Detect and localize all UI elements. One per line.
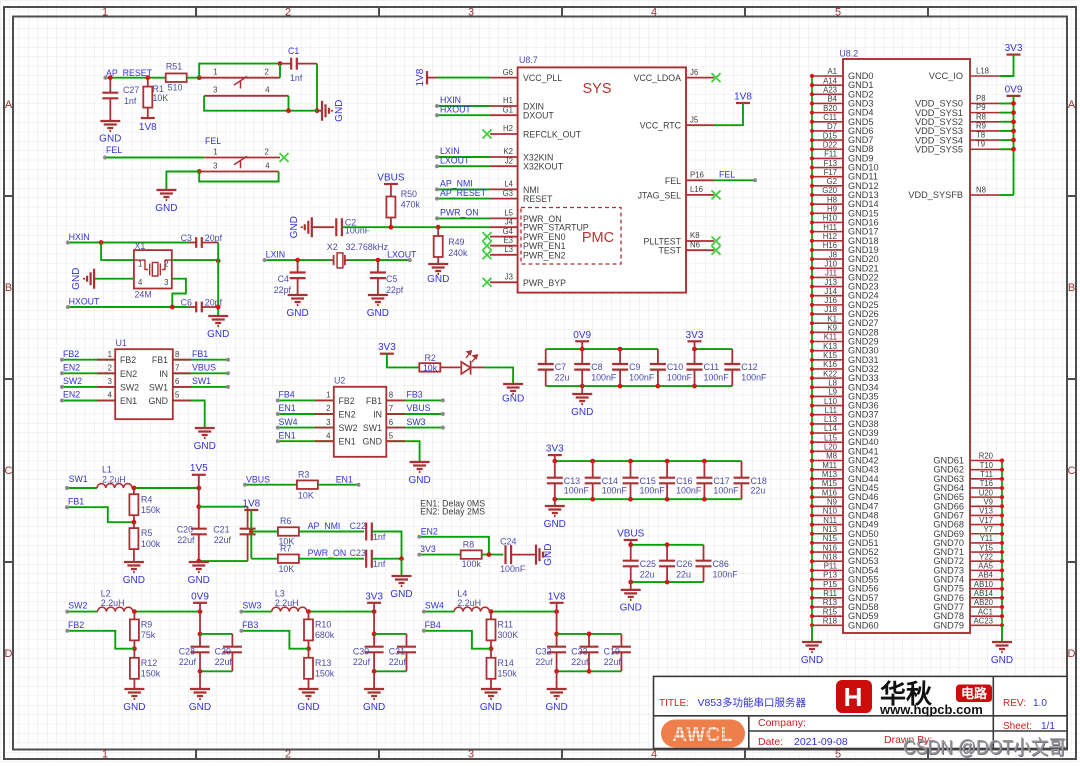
wire X1 pin3	[172, 279, 186, 307]
svg-text:R13: R13	[823, 598, 837, 607]
U8.2 pin L18 VCC_IO	[970, 75, 1000, 77]
svg-text:R8: R8	[463, 539, 474, 549]
svg-text:Y11: Y11	[980, 534, 993, 543]
capacitor C18	[741, 461, 743, 478]
U8.2 pin V9 GND66	[970, 505, 1002, 507]
svg-text:C16: C16	[676, 476, 692, 486]
switch S1 contacts 3-4	[204, 95, 288, 97]
svg-text:D7: D7	[827, 122, 837, 131]
svg-text:R13: R13	[315, 658, 331, 668]
U8.2 pin A14 GND1	[812, 84, 843, 86]
capacitor C30	[365, 647, 384, 653]
svg-text:LXOUT: LXOUT	[440, 155, 470, 165]
ground C2 left	[302, 217, 312, 237]
resistor R13	[308, 649, 310, 658]
wire LXOUT	[349, 259, 410, 261]
svg-text:0V9: 0V9	[573, 330, 591, 341]
svg-text:1: 1	[108, 350, 112, 359]
svg-text:Y22: Y22	[979, 552, 993, 561]
U2 pin 2 EN2	[278, 413, 334, 415]
svg-text:J2: J2	[505, 156, 513, 165]
svg-text:R6: R6	[280, 516, 291, 526]
svg-text:R4: R4	[141, 495, 152, 505]
svg-text:VCC_RTC: VCC_RTC	[640, 121, 682, 131]
svg-text:680k: 680k	[315, 630, 335, 640]
svg-text:GND: GND	[480, 702, 502, 713]
U8.2 pin N9 GND47	[812, 505, 843, 507]
ground C8 bank1	[581, 386, 583, 394]
wire U8.2 right GND bus	[1001, 461, 1003, 626]
svg-text:4: 4	[138, 278, 143, 287]
wire 3V3 cap bank	[373, 612, 375, 647]
U8.2 pin J16 GND25	[812, 304, 843, 306]
svg-text:C28: C28	[179, 647, 195, 657]
capacitor C20	[191, 529, 207, 535]
svg-text:470k: 470k	[401, 200, 421, 210]
wire U8.2 left GND bus	[811, 76, 813, 625]
svg-text:FB3: FB3	[242, 620, 258, 630]
svg-text:C11: C11	[823, 113, 837, 122]
resistor R2	[419, 363, 440, 372]
resistor R7	[251, 558, 278, 560]
U8.2 pin F17 GND11	[812, 176, 843, 178]
svg-text:3: 3	[213, 86, 217, 95]
wire 1V8 cap bank	[556, 612, 558, 647]
wire C20 C21 bank	[198, 488, 200, 529]
U8.2 pin G20 GND13	[812, 194, 843, 196]
svg-text:FB4: FB4	[425, 620, 441, 630]
svg-text:4: 4	[651, 7, 657, 19]
U8.2 pin AB14 GND76	[970, 597, 1002, 599]
svg-text:VDD_SYSFB: VDD_SYSFB	[908, 190, 963, 200]
svg-text:100nF: 100nF	[629, 373, 655, 383]
svg-text:EN1: EN1	[120, 396, 137, 406]
svg-text:SW2: SW2	[120, 382, 139, 392]
svg-text:L2: L2	[101, 588, 111, 598]
svg-text:4: 4	[265, 86, 270, 95]
U1 pin 4 EN1	[62, 400, 115, 402]
capacitor C28	[191, 647, 210, 653]
power 1V8 R6	[244, 509, 258, 511]
svg-text:1nf: 1nf	[373, 559, 386, 569]
svg-text:3V3: 3V3	[378, 342, 396, 353]
wire AP_NMI	[437, 188, 490, 190]
wire R8 to C24	[482, 554, 504, 556]
wire 3V3 to R2	[387, 354, 419, 368]
svg-text:PWR_BYP: PWR_BYP	[523, 278, 566, 288]
no-connect N6	[712, 246, 721, 255]
svg-text:FB3: FB3	[407, 390, 423, 400]
capacitor C33	[588, 634, 590, 647]
svg-text:IN: IN	[159, 369, 168, 379]
svg-text:GND: GND	[297, 702, 319, 713]
svg-text:电路: 电路	[961, 686, 988, 701]
svg-text:6: 6	[389, 418, 393, 427]
svg-text:22uf: 22uf	[604, 657, 622, 667]
U8.2 pin J14 GND24	[812, 295, 843, 297]
svg-text:P11: P11	[824, 562, 837, 571]
svg-text:GND: GND	[362, 437, 382, 447]
U8.7 pin G6 VCC_PLL	[490, 77, 518, 79]
svg-text:B4: B4	[827, 95, 837, 104]
svg-text:32.768kHz: 32.768kHz	[346, 242, 388, 252]
svg-text:K8: K8	[690, 231, 700, 240]
capacitor C14	[592, 461, 594, 478]
wire R7 to C23	[299, 558, 364, 560]
svg-text:150k: 150k	[315, 668, 335, 678]
svg-text:FB2: FB2	[68, 620, 84, 630]
U8.7 pin H2 REFCLK_OUT	[490, 133, 518, 135]
svg-text:VDD_SYS5: VDD_SYS5	[915, 144, 963, 154]
svg-text:A: A	[5, 99, 13, 111]
svg-text:10k: 10k	[423, 363, 438, 373]
svg-text:N16: N16	[823, 543, 837, 552]
wire EN2	[419, 537, 489, 555]
U8.7 pin G3 RESET	[490, 198, 518, 200]
wire R3 to EN1	[318, 484, 359, 486]
U8.2 pin K1 GND27	[812, 322, 843, 324]
svg-text:PWR_ON: PWR_ON	[308, 548, 347, 558]
wire C22 right	[372, 532, 402, 559]
U8.2 pin P15 GND56	[812, 588, 843, 590]
svg-text:SW4: SW4	[425, 601, 444, 611]
capacitor C32	[547, 647, 566, 653]
svg-text:P9: P9	[976, 103, 986, 112]
svg-text:SW2: SW2	[339, 423, 358, 433]
no-connect J3	[483, 278, 492, 287]
svg-text:GND: GND	[155, 203, 177, 214]
ground C13 bank2	[554, 499, 556, 506]
no-connect L3	[483, 250, 492, 259]
capacitor C10	[657, 349, 659, 364]
power 1V8 rotated at G6	[426, 71, 428, 84]
svg-text:AB20: AB20	[974, 598, 994, 607]
svg-text:10K: 10K	[279, 564, 295, 574]
wire HXIN U8.7	[437, 105, 490, 107]
svg-text:GND: GND	[620, 603, 642, 614]
svg-text:P15: P15	[823, 580, 838, 589]
ic U8.2 body	[843, 59, 970, 633]
svg-text:C: C	[1068, 465, 1076, 477]
U8.2 pin P8 VDD_SYS0	[970, 102, 1000, 104]
U1 pin 3 SW2	[62, 386, 115, 388]
svg-text:GND: GND	[99, 134, 121, 145]
U8.2 pin D7 GND6	[812, 130, 843, 132]
svg-text:8: 8	[175, 350, 179, 359]
svg-text:Y15: Y15	[979, 543, 994, 552]
svg-text:HXOUT: HXOUT	[440, 104, 471, 114]
power 3V3 bank1	[688, 340, 702, 342]
svg-text:GND: GND	[367, 308, 389, 319]
capacitor C16	[666, 461, 668, 478]
no-connect J6	[712, 73, 721, 82]
svg-text:7: 7	[389, 404, 393, 413]
U8.2 pin H11 GND17	[812, 231, 843, 233]
svg-text:4: 4	[265, 161, 270, 170]
U8.2 pin Y15 GND71	[970, 551, 1002, 553]
wire SW1	[67, 487, 97, 489]
svg-text:22u: 22u	[751, 486, 766, 496]
svg-text:N8: N8	[976, 186, 986, 195]
svg-text:N10: N10	[823, 507, 838, 516]
wire VBUS bank top	[630, 540, 632, 545]
svg-text:B: B	[1068, 282, 1075, 294]
capacitor C9	[619, 349, 621, 364]
svg-text:M16: M16	[822, 488, 837, 497]
svg-text:D15: D15	[823, 131, 838, 140]
svg-text:C9: C9	[629, 362, 640, 372]
svg-text:R5: R5	[141, 528, 152, 538]
svg-text:A23: A23	[823, 86, 837, 95]
svg-text:AC1: AC1	[978, 607, 993, 616]
U8.2 pin P11 GND54	[812, 569, 843, 571]
svg-text:GND: GND	[571, 407, 593, 418]
svg-text:J18: J18	[824, 305, 837, 314]
wire C23 right	[372, 558, 402, 560]
capacitor C23	[366, 550, 372, 568]
svg-text:GND: GND	[207, 329, 229, 340]
ground U8.2 right	[992, 642, 1012, 652]
wire 1V8 vertical	[250, 510, 252, 559]
U8.7 pin L16 JTAG_SEL	[686, 194, 714, 196]
svg-text:CSDN @DOT小文哥: CSDN @DOT小文哥	[903, 736, 1066, 759]
U8.2 pin AC1 GND78	[970, 615, 1002, 617]
U8.2 pin H8 GND14	[812, 203, 843, 205]
svg-text:GND: GND	[194, 441, 216, 452]
svg-text:H: H	[844, 682, 863, 712]
ground U1	[195, 428, 215, 438]
U8.2 pin R18 GND60	[812, 624, 843, 626]
svg-text:C24: C24	[500, 536, 516, 546]
svg-text:R3: R3	[298, 470, 309, 480]
svg-text:1.0: 1.0	[1033, 698, 1047, 709]
svg-text:H12: H12	[823, 232, 837, 241]
svg-text:100nF: 100nF	[564, 486, 590, 496]
wire U1 GND pin	[173, 401, 205, 429]
wire 0V9 bus	[1013, 96, 1015, 195]
U8.2 pin R11 GND57	[812, 597, 843, 599]
svg-text:100k: 100k	[462, 559, 482, 569]
ground R7 C23	[392, 576, 412, 586]
svg-text:FB2: FB2	[63, 349, 79, 359]
svg-text:C29: C29	[215, 647, 231, 657]
svg-text:240k: 240k	[448, 248, 468, 258]
ground R14	[481, 689, 501, 699]
svg-text:22uf: 22uf	[215, 657, 233, 667]
svg-text:L5: L5	[504, 209, 513, 218]
U8.2 pin Y11 GND70	[970, 542, 1002, 544]
capacitor C8	[581, 349, 583, 364]
svg-text:FB2: FB2	[120, 355, 136, 365]
wire VBUS to R3	[245, 484, 297, 486]
U8.2 pin N8 VDD_SYSFB	[970, 194, 1000, 196]
ground LED	[503, 384, 523, 394]
svg-text:J6: J6	[690, 68, 698, 77]
U8.2 pin R20 GND61	[970, 460, 1002, 462]
U8.2 pin U20 GND65	[970, 496, 1002, 498]
U8.2 pin M13 GND44	[812, 478, 843, 480]
capacitor C17	[703, 461, 705, 478]
power 1V8 at J5	[736, 102, 750, 104]
svg-text:GND: GND	[123, 575, 145, 586]
wire to ground	[166, 172, 199, 191]
svg-text:N18: N18	[823, 552, 837, 561]
svg-text:J11: J11	[825, 269, 837, 278]
power 0V9	[193, 602, 207, 604]
svg-text:LXOUT: LXOUT	[387, 250, 417, 260]
capacitor C26	[666, 545, 668, 561]
svg-text:L16: L16	[690, 185, 703, 194]
capacitor C25	[630, 545, 632, 561]
svg-text:LXIN: LXIN	[266, 250, 286, 260]
svg-text:U8.2: U8.2	[839, 49, 858, 59]
capacitor C11	[694, 349, 696, 364]
wire LED to GND	[471, 366, 484, 368]
svg-text:EN1: EN1	[279, 403, 296, 413]
ground 1V8 caps	[556, 671, 558, 689]
capacitor C15	[630, 461, 632, 478]
capacitor C12	[731, 349, 733, 364]
svg-text:C10: C10	[667, 362, 683, 372]
svg-text:HXIN: HXIN	[69, 232, 90, 242]
svg-text:FB1: FB1	[366, 396, 382, 406]
svg-text:G20: G20	[822, 186, 837, 195]
U8.2 pin R8 VDD_SYS2	[970, 121, 1000, 123]
svg-text:4: 4	[108, 391, 113, 400]
svg-text:C22: C22	[350, 521, 366, 531]
svg-text:GND: GND	[188, 575, 210, 586]
U8.2 pin M15 GND45	[812, 487, 843, 489]
svg-text:2.2uH: 2.2uH	[102, 474, 126, 484]
resistor R50	[390, 184, 392, 197]
svg-text:REFCLK_OUT: REFCLK_OUT	[523, 130, 582, 140]
U8.2 pin J8 GND20	[812, 258, 843, 260]
svg-text:2: 2	[326, 404, 330, 413]
svg-text:L15: L15	[824, 433, 838, 442]
svg-text:VCC_PLL: VCC_PLL	[523, 73, 562, 83]
svg-text:D: D	[1068, 648, 1076, 660]
svg-text:DXOUT: DXOUT	[523, 111, 554, 121]
svg-text:J3: J3	[505, 273, 513, 282]
svg-text:SYS: SYS	[582, 81, 611, 97]
wire U8.2 right bus to ground	[1001, 625, 1003, 642]
resistor R5	[129, 528, 138, 549]
svg-text:0V9: 0V9	[191, 591, 209, 602]
U8.2 pin M8 GND42	[812, 460, 843, 462]
svg-text:GND: GND	[801, 655, 823, 666]
svg-text:VBUS: VBUS	[192, 363, 216, 373]
svg-text:L20: L20	[824, 443, 838, 452]
power VBUS bank	[624, 539, 638, 541]
svg-text:1/1: 1/1	[1041, 721, 1055, 732]
svg-text:C26: C26	[676, 559, 692, 569]
svg-text:N13: N13	[823, 525, 837, 534]
U8.2 pin T10 GND62	[970, 469, 1002, 471]
svg-text:H1: H1	[503, 96, 513, 105]
svg-text:EN2: Delay 2MS: EN2: Delay 2MS	[420, 507, 485, 517]
U8.2 pin P9 VDD_SYS1	[970, 112, 1000, 114]
U8.7 pin L4 NMI	[490, 188, 518, 190]
U8.2 pin J10 GND21	[812, 267, 843, 269]
switch S1 contacts 1-2	[199, 77, 280, 79]
wire U8.2 left bus to ground	[811, 625, 813, 642]
no-connect L16	[712, 190, 721, 199]
U8.2 pin AB10 GND75	[970, 588, 1002, 590]
wire L3 out	[307, 611, 374, 613]
capacitor C4	[297, 260, 299, 272]
resistor R51	[166, 73, 187, 82]
U8.2 pin T8 VDD_SYS4	[970, 139, 1000, 141]
svg-text:EN1: EN1	[336, 474, 353, 484]
svg-text:GND: GND	[289, 216, 300, 238]
svg-text:C27: C27	[123, 85, 139, 95]
svg-text:100nF: 100nF	[704, 373, 730, 383]
svg-text:L10: L10	[824, 397, 838, 406]
wire C21 bottom	[199, 560, 248, 562]
svg-text:7: 7	[175, 364, 179, 373]
svg-text:C6: C6	[181, 298, 192, 308]
wire X1 pin2	[172, 259, 218, 261]
svg-text:SW2: SW2	[68, 601, 87, 611]
svg-text:22u: 22u	[640, 570, 655, 580]
svg-text:L4: L4	[504, 180, 513, 189]
svg-text:C18: C18	[751, 476, 767, 486]
svg-text:5: 5	[835, 749, 841, 761]
ground C24	[536, 545, 546, 565]
svg-text:J8: J8	[829, 250, 837, 259]
svg-text:REV:: REV:	[1003, 698, 1026, 709]
svg-text:D22: D22	[823, 140, 837, 149]
svg-text:SW1: SW1	[192, 376, 211, 386]
U8.2 pin R15 GND59	[812, 615, 843, 617]
svg-text:K16: K16	[823, 360, 837, 369]
U8.7 pin K2 X32KIN	[490, 156, 518, 158]
U8.2 pin B20 GND4	[812, 112, 843, 114]
ic U2 body	[334, 387, 387, 457]
svg-text:5: 5	[389, 431, 394, 440]
svg-text:C: C	[5, 465, 13, 477]
svg-text:R7: R7	[280, 544, 291, 554]
svg-text:J5: J5	[690, 115, 699, 124]
svg-text:VBUS: VBUS	[617, 529, 645, 540]
wire 3V3 R8	[419, 554, 460, 556]
U8.2 pin J18 GND26	[812, 313, 843, 315]
svg-text:TEST: TEST	[659, 246, 682, 256]
svg-text:G1: G1	[503, 105, 513, 114]
svg-text:GND: GND	[427, 274, 449, 285]
wire HXIN	[68, 242, 189, 244]
capacitor C29	[231, 634, 233, 647]
wire switch2 bottom loop	[199, 172, 278, 182]
U8.2 pin K16 GND32	[812, 368, 843, 370]
capacitor C24	[506, 545, 512, 564]
wire FB3	[241, 631, 308, 649]
U8.7 pin G1 DXOUT	[490, 114, 518, 116]
svg-text:3: 3	[213, 161, 217, 170]
svg-text:U2: U2	[334, 376, 345, 386]
ic U8.7 body	[518, 67, 686, 292]
U8.2 pin K11 GND29	[812, 340, 843, 342]
svg-text:3: 3	[468, 749, 474, 761]
power 1V5	[192, 474, 206, 476]
U8.7 pin L3 PWR_EN2	[490, 254, 518, 256]
U8.7 pin G4 PWR_EN0	[490, 236, 518, 238]
U8.2 pin L10 GND36	[812, 405, 843, 407]
svg-text:L1: L1	[102, 465, 112, 475]
svg-text:J16: J16	[824, 296, 837, 305]
svg-text:100k: 100k	[141, 539, 161, 549]
U8.2 pin Y7 GND69	[970, 533, 1002, 535]
